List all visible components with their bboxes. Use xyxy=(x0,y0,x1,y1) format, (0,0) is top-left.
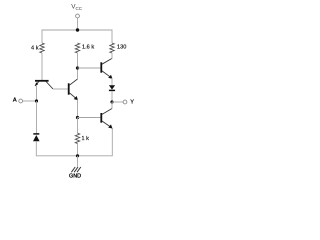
wire Q1 collector to Q2 base xyxy=(53,88,68,90)
wire Q4 collector to output node xyxy=(111,102,113,109)
resistor R4 1k xyxy=(75,133,89,143)
svg-text:Y: Y xyxy=(130,100,134,106)
wire diode D2 to output node xyxy=(111,91,113,102)
node Y output terminal xyxy=(112,100,134,106)
ground symbol xyxy=(69,156,81,180)
wire clamp diode to ground rail xyxy=(36,128,112,156)
svg-text:VCC: VCC xyxy=(71,4,83,11)
junction dot Q2 collector node xyxy=(76,66,79,69)
transistor Q2 phase splitter xyxy=(69,79,78,100)
diode D2 output xyxy=(109,85,115,90)
resistor R2 1.6k xyxy=(75,43,94,53)
node VCC terminal xyxy=(71,4,83,18)
diode D1 input clamp xyxy=(33,134,40,141)
wire R3 to Q3 collector xyxy=(111,53,113,59)
transistor Q4 pull-down xyxy=(101,109,112,129)
wire Q2 emitter to 1k node xyxy=(77,99,79,117)
transistor Q3 pull-up xyxy=(101,58,112,78)
node A input terminal xyxy=(13,98,37,104)
wire R2 to Q2 collector node xyxy=(77,53,79,68)
wire top VCC rail xyxy=(42,30,112,43)
svg-text:GND: GND xyxy=(69,174,81,180)
junction dot VCC rail xyxy=(76,28,79,31)
wire Q1 emitter to input node A xyxy=(36,85,38,101)
junction dot ground rail xyxy=(76,154,79,157)
wire R4 to ground rail xyxy=(77,144,79,156)
junction dot 1k node xyxy=(76,116,79,119)
svg-text:1 k: 1 k xyxy=(82,136,90,142)
resistor R3 130 xyxy=(110,43,127,53)
wire Q3 emitter to diode D2 xyxy=(111,78,113,85)
wire VCC lead xyxy=(77,18,79,30)
transistor Q1 input xyxy=(35,81,53,89)
wire input node to clamp diode xyxy=(36,101,38,133)
wire 1k node to Q4 base xyxy=(78,117,101,119)
svg-text:A: A xyxy=(13,98,17,104)
svg-text:1.6 k: 1.6 k xyxy=(82,44,94,50)
junction dot output node xyxy=(110,100,113,103)
resistor R1 4k xyxy=(31,43,44,53)
wire R1 to Q1 base xyxy=(41,53,43,80)
svg-text:130: 130 xyxy=(117,45,126,51)
wire 1k node to R4 xyxy=(77,118,79,134)
svg-text:4 k: 4 k xyxy=(31,45,39,51)
wire Q2 collector node to Q3 base xyxy=(78,67,101,69)
wire Q2 collector to node xyxy=(77,68,79,79)
junction dot input node xyxy=(35,99,38,102)
